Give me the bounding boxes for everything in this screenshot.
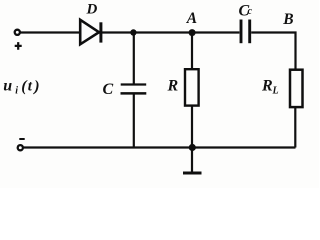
svg-text:u: u (3, 78, 12, 95)
svg-text:C: C (103, 81, 114, 98)
svg-text:): ) (32, 78, 39, 95)
svg-text:D: D (86, 2, 98, 18)
svg-text:R: R (167, 78, 179, 95)
svg-text:R: R (261, 78, 273, 95)
svg-text:i: i (15, 86, 18, 97)
svg-text:A: A (186, 10, 197, 27)
svg-text:c: c (248, 6, 253, 17)
svg-text:B: B (282, 11, 293, 28)
svg-text:t: t (28, 79, 33, 95)
svg-text:L: L (272, 86, 279, 97)
